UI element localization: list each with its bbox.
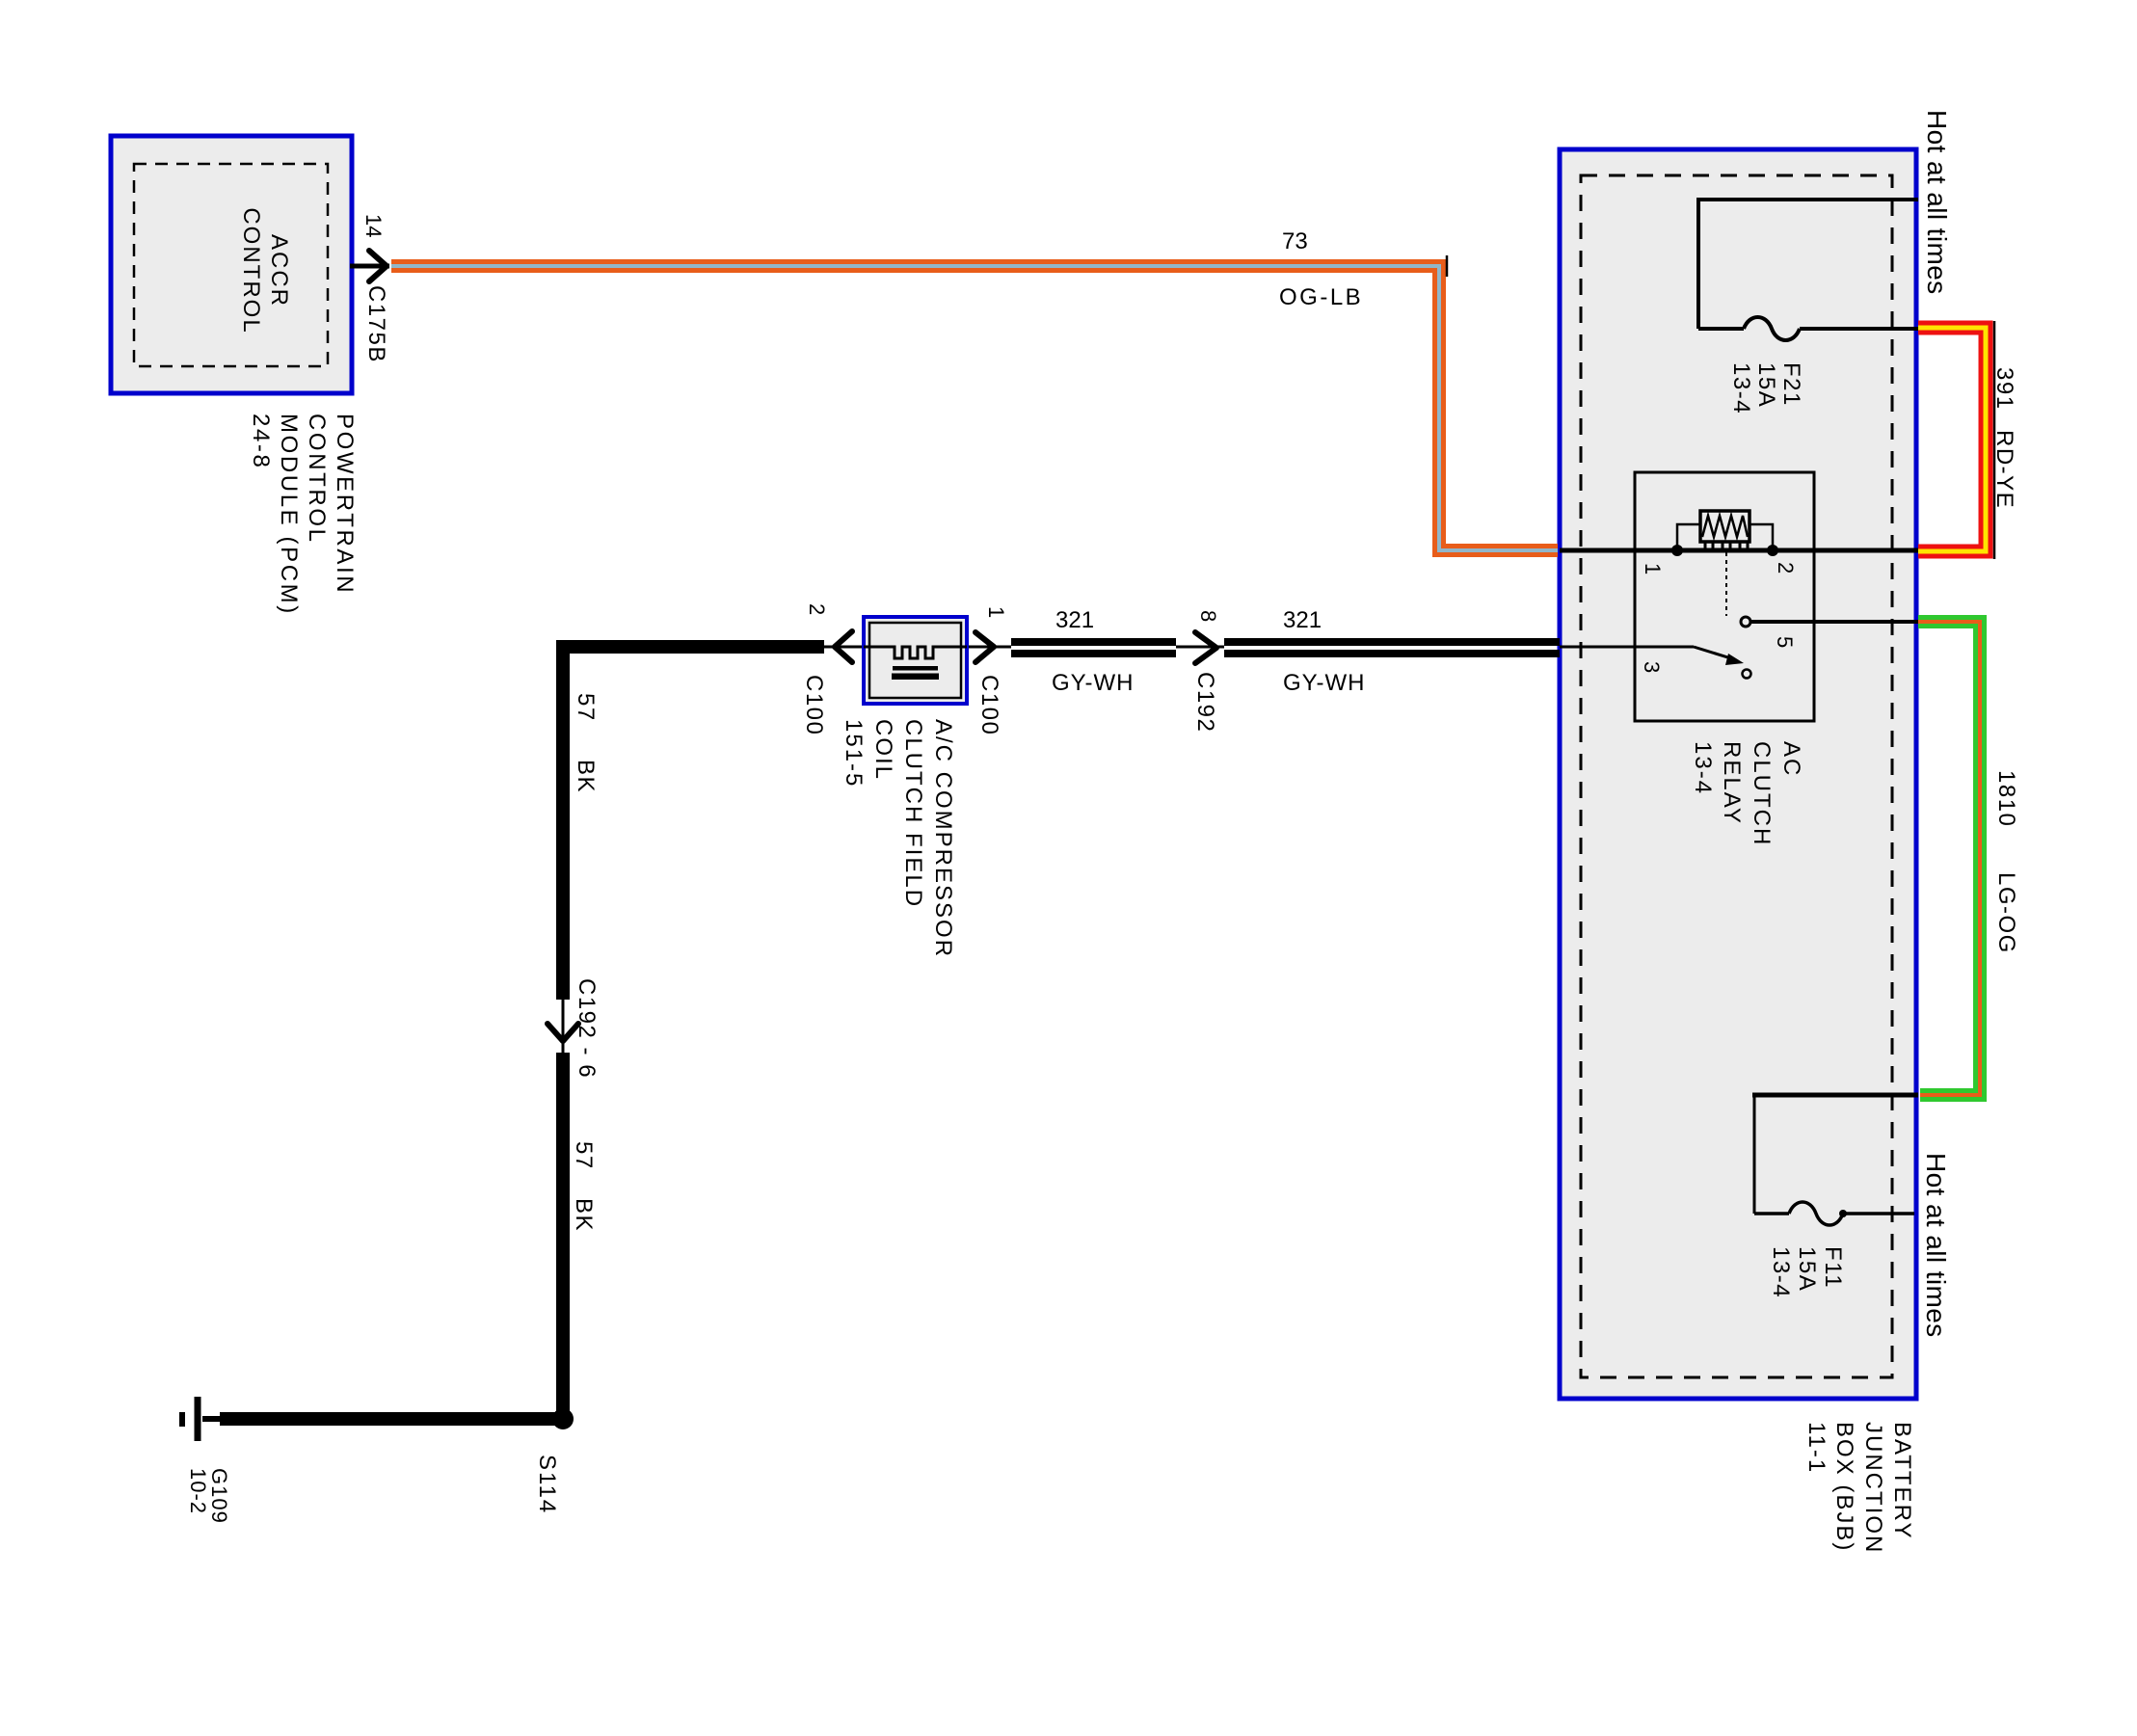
- svg-text:1: 1: [1641, 563, 1665, 574]
- svg-text:C192 - 6: C192 - 6: [574, 978, 600, 1079]
- svg-text:BK: BK: [573, 760, 599, 793]
- svg-text:5: 5: [1773, 636, 1797, 648]
- svg-text:73: 73: [1282, 228, 1308, 254]
- svg-text:OG-LB: OG-LB: [1279, 284, 1363, 310]
- svg-text:BK: BK: [571, 1198, 597, 1232]
- svg-text:1: 1: [984, 606, 1008, 618]
- svg-text:S114: S114: [534, 1455, 560, 1514]
- svg-text:C175B: C175B: [363, 285, 389, 363]
- svg-text:8: 8: [1196, 610, 1220, 622]
- svg-text:14: 14: [361, 214, 386, 237]
- svg-text:57: 57: [573, 693, 599, 722]
- svg-text:C100: C100: [976, 675, 1002, 735]
- svg-text:Hot at all times: Hot at all times: [1922, 110, 1952, 295]
- svg-text:GY-WH: GY-WH: [1052, 670, 1134, 696]
- svg-text:2: 2: [1774, 562, 1798, 574]
- svg-text:2: 2: [805, 603, 829, 615]
- svg-text:GY-WH: GY-WH: [1283, 670, 1365, 696]
- svg-text:Hot at all times: Hot at all times: [1921, 1153, 1951, 1338]
- svg-text:321: 321: [1055, 607, 1094, 633]
- svg-text:C192: C192: [1192, 672, 1218, 733]
- svg-text:391RD-YE: 391RD-YE: [1991, 367, 2017, 509]
- svg-text:321: 321: [1283, 607, 1322, 633]
- svg-text:C100: C100: [801, 675, 827, 735]
- svg-text:3: 3: [1640, 661, 1664, 673]
- svg-text:57: 57: [571, 1141, 597, 1170]
